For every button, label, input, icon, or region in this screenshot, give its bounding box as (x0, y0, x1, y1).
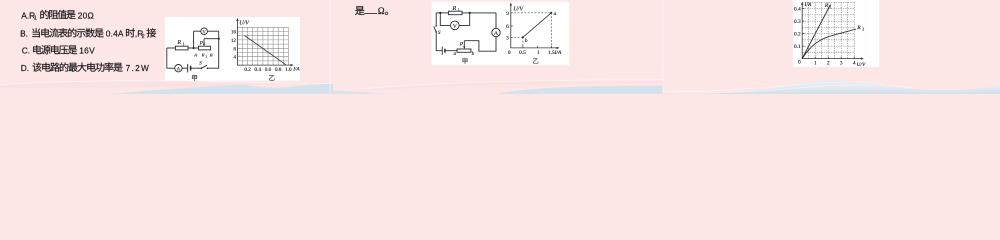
graph2 point a (550, 12, 552, 14)
wire: ammeter to battery (182, 67, 188, 69)
svg-text:0.6: 0.6 (265, 67, 272, 73)
svg-text:A: A (193, 52, 197, 57)
wire: left vertical below switch to battery (circuit2) (436, 32, 442, 51)
wire: circuit2 top left corner down to switch (435, 13, 437, 26)
wire: circuit1 left vertical + bottom to ammeter (167, 48, 175, 68)
svg-text:0: 0 (798, 59, 801, 65)
panel 1 (slide1 figure) (165, 17, 300, 81)
svg-text:3: 3 (840, 61, 843, 67)
svg-text:R: R (452, 6, 457, 12)
svg-text:20Ω: 20Ω (78, 10, 94, 20)
graph1 U-I line (245, 36, 287, 65)
svg-text:R: R (177, 40, 182, 46)
graph2 axes (511, 4, 559, 48)
svg-text:8: 8 (233, 46, 236, 52)
slide seam 2 (662, 0, 663, 94)
switch S blade (circuit2) (434, 26, 437, 32)
svg-text:C.: C. (22, 46, 30, 56)
resistor R1 box (circuit2) (448, 11, 462, 15)
svg-text:P: P (199, 40, 204, 46)
svg-text:D.: D. (21, 63, 29, 73)
svg-text:3: 3 (506, 35, 509, 41)
wire: battery to rheostat a terminal (circuit2) (445, 50, 457, 52)
svg-text:R: R (201, 52, 205, 57)
svg-text:0.4: 0.4 (794, 7, 801, 13)
background wave slide2 pink lines (360, 81, 663, 92)
label A in ammeter (circuit2) (494, 31, 498, 35)
svg-text:U/V: U/V (857, 62, 867, 68)
svg-text:S: S (438, 30, 441, 36)
svg-text:16V: 16V (79, 46, 95, 56)
svg-text:0.2: 0.2 (794, 32, 801, 38)
panel 3 (slide3 figure) (793, 0, 879, 67)
label V in voltmeter (circuit2) (453, 24, 457, 28)
svg-text:0.4A: 0.4A (106, 29, 124, 39)
svg-text:1.0: 1.0 (285, 67, 292, 73)
label yi (graph1 caption) (269, 75, 275, 80)
rheostat R2 box (A-B) (199, 46, 211, 50)
node: circuit2 dots on top wire (439, 12, 441, 14)
ammeter A circle (circuit2) (492, 28, 500, 36)
svg-text:0.2: 0.2 (244, 67, 251, 73)
svg-text:0.3: 0.3 (794, 19, 801, 25)
svg-text:1: 1 (537, 50, 540, 56)
rheostat R2 box a-b (circuit2) (457, 49, 471, 52)
svg-text:16: 16 (231, 30, 237, 36)
rheostat wiper arrow (203, 39, 205, 45)
svg-text:R: R (824, 3, 829, 9)
label yi (graph2 caption) (533, 58, 538, 63)
node: wiper junction dot on right vertical (218, 38, 220, 40)
svg-text:1.5: 1.5 (548, 50, 555, 56)
graph3 line R1 (802, 5, 830, 59)
label A in ammeter (circuit1) (177, 67, 181, 70)
svg-text:9: 9 (506, 11, 509, 17)
svg-text:1: 1 (458, 7, 460, 12)
graph1 grid (237, 27, 288, 65)
graph2 line b to a (523, 13, 551, 38)
wire: wiper to right vertical (204, 38, 219, 40)
graph3 curve R2 (802, 29, 856, 58)
background wave slide1 pink band (0, 82, 333, 89)
svg-text:4: 4 (233, 55, 236, 61)
svg-text:7.2W: 7.2W (126, 63, 151, 73)
svg-text:I/A: I/A (804, 2, 812, 8)
background wave white arcs (0, 81, 333, 85)
voltmeter V circle (circuit2) (451, 21, 460, 30)
battery cell (187, 64, 189, 73)
svg-text:a: a (554, 11, 557, 17)
background wave slide2 blue left wedge (333, 90, 390, 94)
svg-text:6: 6 (506, 24, 509, 30)
graph2 axis ticks (511, 13, 552, 48)
svg-text:1: 1 (830, 4, 832, 9)
graph2 dashed guides (511, 13, 552, 48)
svg-text:U/V: U/V (513, 6, 524, 13)
graph3 axis ticks (802, 9, 854, 59)
svg-text:12: 12 (231, 38, 237, 44)
svg-text:1: 1 (183, 42, 185, 47)
svg-text:R: R (856, 25, 861, 31)
graph1 axes (237, 19, 293, 65)
rheostat wiper arrow (circuit2) (463, 41, 465, 48)
switch S blade (202, 65, 208, 68)
svg-text:P: P (459, 42, 464, 48)
node: junction dot left of voltmeter branch (193, 47, 195, 49)
svg-text:B: B (210, 52, 213, 57)
node: circuit2 switch contacts (435, 25, 437, 27)
svg-text:Ω: Ω (378, 6, 385, 16)
wire: ammeter up to top right corner (circuit2) (495, 13, 497, 28)
label jia (circuit1 caption) (192, 75, 197, 81)
svg-text:I/A: I/A (292, 66, 300, 72)
svg-text:1: 1 (814, 61, 817, 67)
wire: battery to switch (191, 67, 202, 69)
svg-text:0: 0 (508, 50, 511, 56)
svg-text:B.: B. (20, 29, 28, 39)
svg-text:2: 2 (827, 61, 830, 67)
svg-text:U/V: U/V (239, 21, 250, 27)
panel 2 (slide2 figure) (432, 2, 570, 66)
svg-text:2: 2 (206, 54, 208, 58)
wire: circuit2 top wire left of R1 (436, 12, 448, 14)
wire: voltmeter branch verticals (circuit2) (440, 13, 469, 26)
wire: voltmeter top loop (194, 30, 219, 32)
graph3 axes (802, 3, 862, 59)
wire: voltmeter branch left vertical (193, 31, 195, 48)
battery cell (circuit2) (441, 47, 443, 55)
voltmeter V circle (201, 28, 208, 35)
question text shi ___ ohm (slide2) (355, 6, 364, 15)
wire: R1 to junction node (188, 47, 198, 49)
svg-text:0.5: 0.5 (519, 50, 526, 56)
svg-text:4: 4 (853, 61, 856, 67)
node: switch contact dots (201, 67, 203, 69)
wire: wiper over and down to bottom right (circuit2) (464, 37, 496, 52)
svg-text:0.8: 0.8 (275, 67, 282, 73)
svg-text:0.1: 0.1 (794, 44, 801, 50)
svg-text:b: b (525, 38, 528, 44)
slide seam 1 (330, 0, 331, 94)
resistor R1 box (175, 46, 188, 50)
background wave slide2 blue (498, 85, 663, 94)
background wave slide1 blue (112, 84, 333, 94)
svg-text:0.4: 0.4 (255, 67, 262, 73)
wire: right vertical (wiper node down to bottom) (208, 31, 219, 68)
ammeter A circle (175, 65, 182, 72)
svg-text:2: 2 (862, 27, 864, 32)
wire: circuit2 top wire right of R1 (462, 12, 496, 14)
wire: circuit1 left horizontal to R1 (167, 47, 176, 49)
graph3 dashed grid (802, 2, 854, 58)
svg-text:1: 1 (34, 16, 37, 22)
label V in voltmeter (circuit1) (202, 30, 205, 33)
label jia (circuit2 caption) (463, 58, 468, 63)
svg-text:2: 2 (142, 34, 145, 40)
graph2 point b (522, 36, 524, 38)
